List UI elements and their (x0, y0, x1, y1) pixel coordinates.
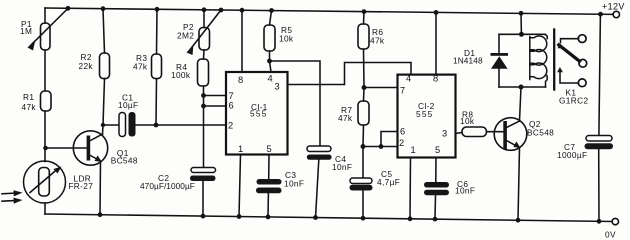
svg-text:4: 4 (406, 74, 411, 84)
capacitor C1 (103, 124, 119, 126)
svg-text:10nF: 10nF (455, 186, 475, 196)
svg-text:R1: R1 (23, 92, 34, 102)
svg-text:10µF: 10µF (118, 100, 138, 110)
wire pin5 CI-1 to C3 (268, 155, 270, 180)
node bottom rail junctions (98, 212, 602, 223)
label CI-2 pins (399, 74, 447, 156)
label C6 (455, 179, 475, 196)
svg-text:5: 5 (267, 144, 272, 154)
relay bottom arrow (557, 67, 563, 72)
wire R4 to C2 (203, 86, 205, 168)
node R5/pin4 junction (267, 59, 272, 64)
op-amp U1 CI-1 555 (226, 72, 288, 155)
node R7/C5/pin2 junction (361, 144, 366, 149)
node relay/collector junction (519, 85, 524, 90)
svg-text:100k: 100k (171, 70, 191, 80)
node relay top junction (519, 32, 524, 37)
capacitor C3 (257, 179, 282, 185)
svg-text:1: 1 (411, 145, 416, 155)
wire pin6 CI-2 step (381, 132, 398, 147)
label P1 (20, 19, 32, 36)
svg-text:7: 7 (229, 91, 234, 101)
LDR FR-27 (24, 161, 66, 203)
capacitor C5 (362, 147, 364, 179)
resistor R1 (41, 91, 52, 111)
label C7 (557, 142, 587, 160)
label P2 (177, 22, 194, 41)
wire pin3 CI-2 to R8 (456, 133, 463, 134)
svg-text:47k: 47k (22, 102, 37, 112)
wire P2 to R4 (203, 50, 206, 59)
wire pin1 CI-1 to rail (239, 155, 241, 217)
wire pin4 CI-1 to R5 node (270, 61, 272, 72)
resistor R2 (100, 53, 110, 79)
wire node to R7 (363, 88, 366, 102)
svg-text:4: 4 (268, 74, 273, 84)
wire Q2 emitter to rail (518, 148, 520, 221)
wire base of Q1 (46, 147, 87, 149)
svg-text:47k: 47k (133, 62, 148, 72)
svg-text:10nF: 10nF (284, 179, 304, 189)
wire relay top horizontal (499, 33, 545, 35)
svg-text:1N4148: 1N4148 (453, 55, 483, 65)
wire R8 to Q2 base (487, 131, 504, 133)
svg-text:0V: 0V (605, 230, 616, 240)
op-amp U2 CI-2 555 (398, 75, 456, 158)
resistor R3 (152, 54, 162, 79)
wire rail to R2 (103, 9, 105, 53)
wire top rail drop to P1 (44, 8, 46, 23)
diode D1 1N4148 (498, 34, 500, 53)
svg-text:FR-27: FR-27 (68, 181, 93, 191)
resistor R4 (198, 59, 209, 86)
svg-text:2: 2 (399, 138, 404, 148)
wire rail to R3 (156, 9, 159, 54)
wire pin2 CI-1 (156, 124, 226, 126)
label C2 (140, 173, 195, 191)
label R5 (279, 25, 294, 44)
label D1 (453, 48, 483, 65)
transistor Q1 (73, 131, 107, 165)
label Q1 (111, 148, 138, 166)
label K1 (559, 88, 588, 106)
svg-text:5: 5 (435, 145, 440, 155)
wire P1 to R1 (44, 50, 46, 91)
wire Q2 collector to relay (520, 87, 522, 121)
svg-text:4,7µF: 4,7µF (377, 177, 400, 187)
svg-text:8: 8 (238, 75, 243, 85)
wire R1 to LDR (44, 111, 46, 162)
relay arm (559, 45, 580, 61)
svg-text:22k: 22k (79, 61, 94, 71)
relay arm arrow (557, 43, 563, 48)
label C5 (377, 169, 400, 187)
wire top rail (45, 8, 613, 14)
svg-text:3: 3 (275, 82, 280, 92)
relay core bar (553, 30, 555, 90)
svg-text:555: 555 (250, 109, 267, 119)
label R6 (370, 27, 385, 46)
wire pin7 CI-1 (204, 95, 227, 97)
svg-text:BC548: BC548 (111, 156, 138, 166)
svg-text:555: 555 (416, 109, 433, 119)
relay K1 coil (544, 34, 547, 38)
label R3 (133, 53, 148, 72)
label Q2 (527, 119, 554, 138)
capacitor C7 (586, 136, 612, 142)
wire pin1 CI-2 to rail (409, 158, 412, 219)
wire bottom rail rise to LDR (44, 203, 46, 214)
relay contact middle (579, 59, 587, 67)
node R6/R7/pin7 junction (362, 85, 367, 90)
node C1/R3/pin2 junction (154, 123, 159, 128)
wire pin5 CI-2 to C6 (435, 158, 437, 183)
resistor R5 (264, 25, 275, 51)
node +12V terminal (613, 11, 619, 17)
node top rail junctions (66, 6, 603, 17)
resistor R7 (358, 101, 369, 125)
node 0V terminal (612, 218, 618, 224)
svg-text:8: 8 (433, 74, 438, 84)
light arrows (2, 192, 14, 195)
potentiometer P1 (41, 23, 51, 50)
resistor R6 (358, 24, 369, 49)
svg-text:G1RC2: G1RC2 (559, 96, 588, 106)
wire bottom rail (45, 214, 612, 222)
svg-text:10nF: 10nF (332, 162, 352, 172)
svg-text:1: 1 (238, 144, 243, 154)
svg-text:10k: 10k (460, 116, 475, 126)
svg-text:7: 7 (400, 86, 405, 96)
label R8 (460, 110, 475, 127)
resistor R8 (462, 127, 487, 137)
capacitor C4 (307, 146, 331, 152)
label C1 (118, 93, 138, 110)
potentiometer P2 (199, 28, 210, 51)
label CI-2 (416, 101, 435, 119)
svg-text:6: 6 (400, 127, 405, 137)
wire R5 to node (269, 51, 271, 61)
svg-text:47k: 47k (338, 113, 353, 123)
node base junction (43, 146, 48, 151)
wire rail to C7 (599, 14, 601, 135)
wire rail to P2 (203, 10, 205, 28)
wire pin6 CI-1 (204, 105, 227, 107)
svg-text:10k: 10k (279, 34, 294, 44)
svg-text:470µF/1000µF: 470µF/1000µF (140, 181, 195, 191)
svg-text:6: 6 (229, 101, 234, 111)
svg-text:47k: 47k (370, 36, 385, 46)
label CI-1 (250, 102, 268, 119)
svg-text:3: 3 (442, 129, 447, 139)
label R1 (22, 92, 37, 112)
wire R6 to pin7 node (363, 49, 366, 88)
wire R2 to collector node (103, 79, 105, 134)
capacitor C2 (191, 168, 216, 173)
wire pin8 CI-1 to rail (241, 10, 243, 72)
transistor Q2 (494, 118, 527, 151)
relay contact top (578, 35, 586, 43)
node collector/C1 junction (101, 123, 105, 127)
label C3 (284, 170, 304, 189)
svg-text:BC548: BC548 (527, 128, 554, 138)
wire pin7 CI-2 (364, 87, 398, 89)
svg-text:1000µF: 1000µF (557, 150, 587, 160)
wire rail to R5 (270, 11, 272, 26)
wire rail to R6 (363, 12, 366, 24)
label C4 (332, 154, 352, 172)
label R4 (171, 62, 191, 80)
node pin6 junction (201, 104, 206, 109)
label LDR (68, 174, 93, 192)
svg-text:1M: 1M (20, 26, 32, 36)
capacitor C6 (424, 182, 449, 188)
wire pin2 CI-2 (363, 146, 398, 148)
wire rail to relay top (520, 13, 522, 34)
svg-text:2M2: 2M2 (177, 31, 194, 41)
wire R5 node to C4 (270, 61, 321, 146)
wire Q1 emitter to rail (99, 162, 102, 215)
svg-text:+12V: +12V (602, 2, 625, 12)
wire pin8 CI-2 to rail (435, 12, 437, 74)
svg-text:2: 2 (228, 121, 233, 131)
wire R3 to junction (155, 79, 158, 125)
label R7 (338, 105, 353, 123)
wire R7 to pin2 node (362, 125, 365, 147)
label CI-1 pins (228, 74, 280, 155)
node pin7 junction (201, 93, 206, 98)
wire relay bottom horizontal (499, 86, 546, 88)
wire pin3 CI-1 to pin4 CI-2 (288, 63, 412, 85)
relay contact bottom (578, 79, 586, 87)
node pin6 step junction (379, 144, 384, 149)
label R2 (79, 52, 94, 71)
